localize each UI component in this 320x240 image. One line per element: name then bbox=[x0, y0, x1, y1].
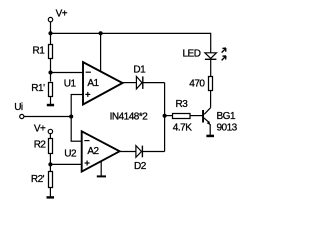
svg-text:LED: LED bbox=[183, 49, 201, 60]
svg-text:U1: U1 bbox=[64, 79, 77, 90]
svg-text:A2: A2 bbox=[87, 146, 99, 157]
svg-text:R1: R1 bbox=[33, 46, 46, 57]
svg-text:R2': R2' bbox=[31, 174, 45, 185]
svg-text:9013: 9013 bbox=[217, 123, 238, 134]
svg-text:A1: A1 bbox=[87, 78, 99, 89]
svg-text:IN4148*2: IN4148*2 bbox=[110, 111, 149, 122]
svg-text:470: 470 bbox=[189, 79, 205, 90]
svg-text:R1': R1' bbox=[31, 83, 45, 94]
svg-text:R2: R2 bbox=[34, 140, 47, 151]
svg-text:D1: D1 bbox=[133, 65, 146, 76]
svg-text:U2: U2 bbox=[64, 149, 77, 160]
svg-text:D2: D2 bbox=[134, 161, 147, 172]
svg-text:Ui: Ui bbox=[14, 102, 23, 113]
svg-text:4.7K: 4.7K bbox=[173, 123, 192, 134]
svg-text:V+: V+ bbox=[34, 123, 46, 134]
svg-text:V+: V+ bbox=[56, 8, 68, 19]
svg-text:BG1: BG1 bbox=[217, 111, 236, 122]
svg-text:R3: R3 bbox=[176, 99, 189, 110]
